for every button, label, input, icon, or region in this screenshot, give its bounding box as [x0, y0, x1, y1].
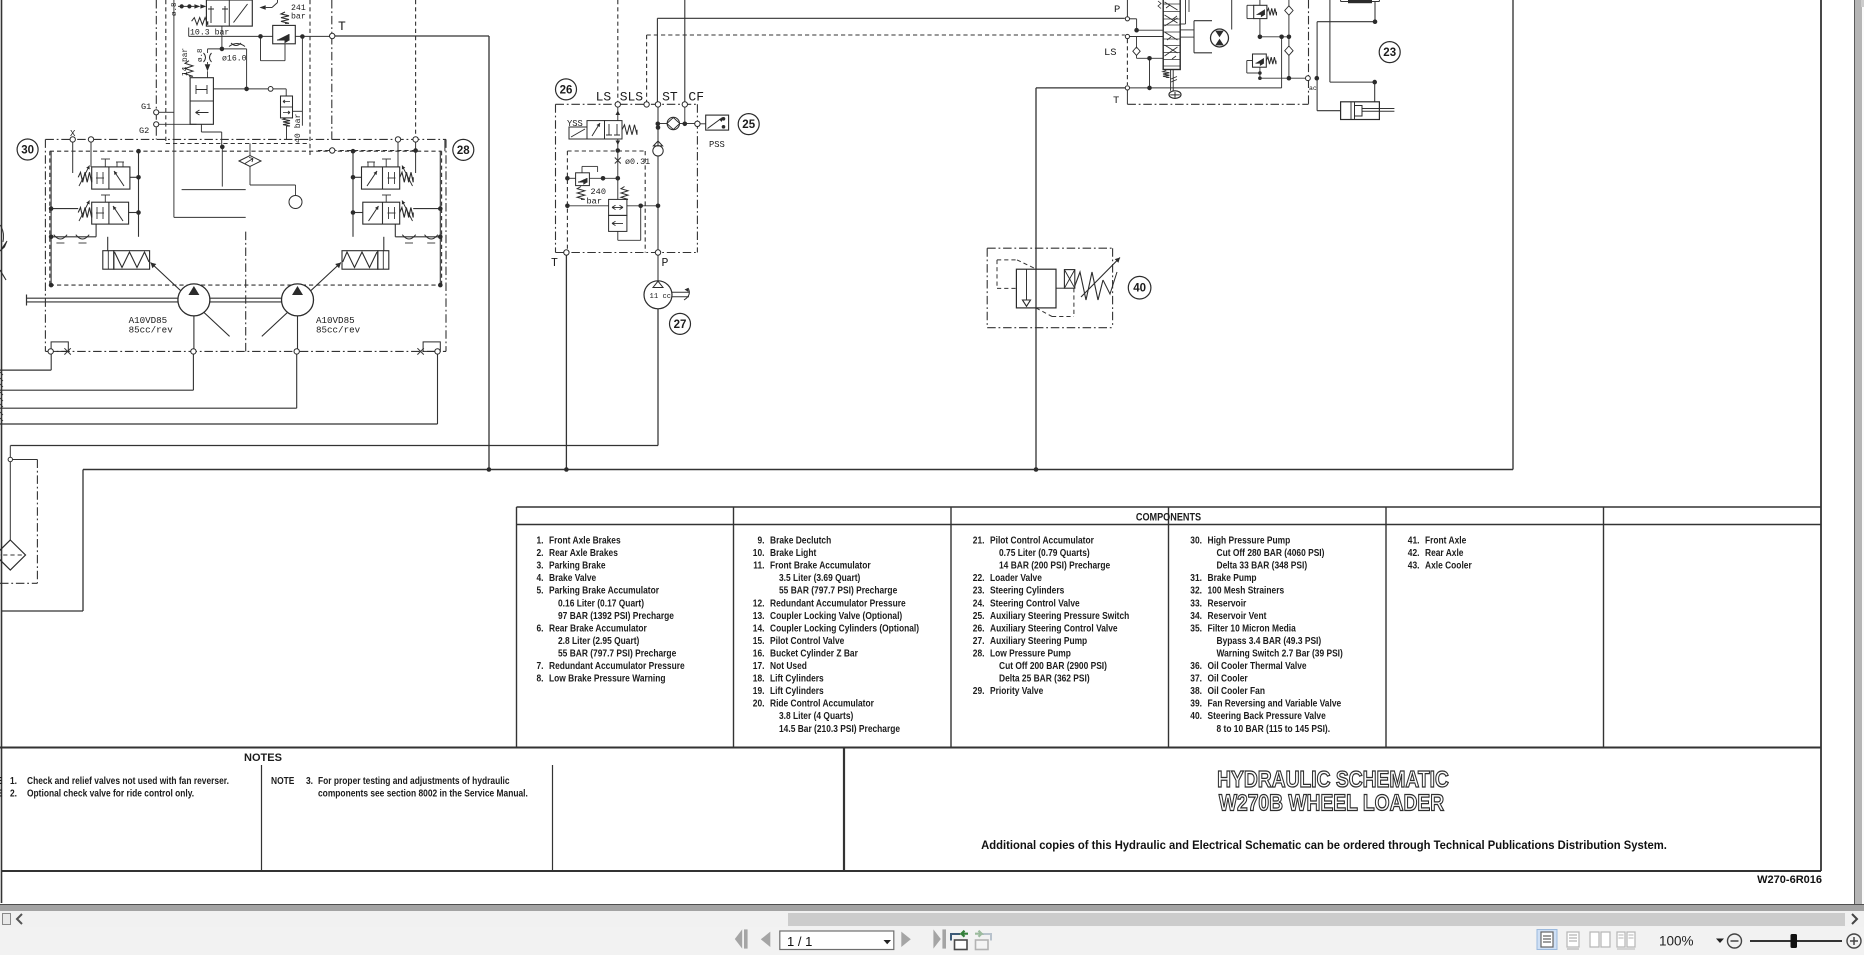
- svg-text:Steering Back Pressure Valve: Steering Back Pressure Valve: [1208, 710, 1326, 721]
- svg-text:X: X: [70, 129, 76, 139]
- svg-text:24.: 24.: [973, 598, 985, 609]
- svg-text:36.: 36.: [1190, 660, 1202, 671]
- svg-text:40 bar: 40 bar: [293, 113, 303, 143]
- svg-text:5.: 5.: [536, 585, 543, 596]
- svg-text:14 bar: 14 bar: [182, 48, 190, 76]
- svg-text:Coupler Locking Cylinders (Opt: Coupler Locking Cylinders (Optional): [770, 623, 919, 634]
- svg-text:8.: 8.: [536, 673, 543, 684]
- svg-text:Loader Valve: Loader Valve: [990, 572, 1042, 583]
- svg-text:Front Brake Accumulator: Front Brake Accumulator: [770, 560, 871, 571]
- svg-text:23.: 23.: [973, 585, 985, 596]
- svg-text:Lift Cylinders: Lift Cylinders: [770, 685, 824, 696]
- svg-text:100 Mesh Strainers: 100 Mesh Strainers: [1208, 585, 1285, 596]
- svg-text:Low Brake Pressure Warning: Low Brake Pressure Warning: [549, 673, 666, 684]
- svg-text:W270-6R016: W270-6R016: [1757, 874, 1822, 886]
- svg-text:97 BAR (1392 PSI) Precharge: 97 BAR (1392 PSI) Precharge: [558, 610, 674, 621]
- svg-text:T: T: [1113, 95, 1119, 107]
- svg-text:55 BAR (797.7 PSI) Precharge: 55 BAR (797.7 PSI) Precharge: [558, 648, 676, 659]
- svg-text:20.: 20.: [753, 698, 765, 709]
- svg-text:Oil Cooler: Oil Cooler: [1208, 673, 1249, 684]
- svg-text:28: 28: [457, 145, 470, 157]
- svg-text:ø16.0: ø16.0: [222, 55, 247, 64]
- svg-text:1.: 1.: [10, 775, 17, 786]
- svg-text:Cut Off 280 BAR (4060 PSI): Cut Off 280 BAR (4060 PSI): [1217, 547, 1325, 558]
- svg-text:T: T: [551, 257, 558, 270]
- svg-text:Rear Axle: Rear Axle: [1425, 547, 1463, 558]
- svg-text:Oil Cooler Fan: Oil Cooler Fan: [1208, 685, 1266, 696]
- svg-text:ø.8: ø.8: [171, 2, 179, 16]
- svg-text:Delta 33 BAR (348 PSI): Delta 33 BAR (348 PSI): [1217, 560, 1308, 571]
- svg-text:30.: 30.: [1190, 535, 1202, 546]
- svg-text:8 to 10 BAR (115 to 145 PSI).: 8 to 10 BAR (115 to 145 PSI).: [1217, 723, 1331, 734]
- svg-text:LS: LS: [1104, 47, 1117, 59]
- svg-text:G1: G1: [141, 102, 151, 112]
- svg-text:3.: 3.: [536, 560, 543, 571]
- svg-text:NOTE: NOTE: [271, 775, 294, 786]
- svg-text:Cut Off 200 BAR (2900 PSI): Cut Off 200 BAR (2900 PSI): [999, 660, 1107, 671]
- svg-text:0.16 Liter (0.17 Quart): 0.16 Liter (0.17 Quart): [558, 598, 644, 609]
- svg-text:Ride Control Accumulator: Ride Control Accumulator: [770, 698, 874, 709]
- svg-text:HYDRAULIC SCHEMATIC: HYDRAULIC SCHEMATIC: [1217, 766, 1449, 792]
- svg-text:9.: 9.: [757, 535, 764, 546]
- svg-text:ø.8: ø.8: [197, 48, 205, 62]
- svg-text:23: 23: [1383, 47, 1396, 59]
- svg-text:T: T: [338, 19, 346, 34]
- svg-text:Parking Brake: Parking Brake: [549, 560, 606, 571]
- svg-text:Auxiliary Steering Pump: Auxiliary Steering Pump: [990, 635, 1087, 646]
- svg-text:YSS: YSS: [567, 119, 583, 129]
- svg-text:COMPONENTS: COMPONENTS: [1136, 512, 1202, 524]
- svg-text:14 BAR (200 PSI) Precharge: 14 BAR (200 PSI) Precharge: [999, 560, 1110, 571]
- svg-text:Front Axle: Front Axle: [1425, 535, 1466, 546]
- svg-text:39.: 39.: [1190, 698, 1202, 709]
- svg-text:Check and relief valves not us: Check and relief valves not used with fa…: [27, 775, 229, 786]
- svg-text:2.: 2.: [10, 788, 17, 799]
- svg-text:Optional check valve for ride: Optional check valve for ride control on…: [27, 788, 194, 799]
- svg-text:G2: G2: [139, 126, 149, 136]
- svg-text:1.: 1.: [536, 535, 543, 546]
- svg-text:Front Axle Brakes: Front Axle Brakes: [549, 535, 621, 546]
- svg-text:Brake Pump: Brake Pump: [1208, 572, 1257, 583]
- svg-text:Filter 10 Micron Media: Filter 10 Micron Media: [1208, 623, 1297, 634]
- svg-text:Auxiliary Steering Control Val: Auxiliary Steering Control Valve: [990, 623, 1118, 634]
- svg-text:Reservoir: Reservoir: [1208, 598, 1247, 609]
- svg-text:Rear Axle Brakes: Rear Axle Brakes: [549, 547, 618, 558]
- svg-text:26.: 26.: [973, 623, 985, 634]
- svg-text:High Pressure Pump: High Pressure Pump: [1208, 535, 1291, 546]
- svg-text:33.: 33.: [1190, 598, 1202, 609]
- svg-text:3.8 Liter (4 Quarts): 3.8 Liter (4 Quarts): [779, 710, 853, 721]
- svg-text:40.: 40.: [1190, 710, 1202, 721]
- svg-text:85cc/rev: 85cc/rev: [129, 325, 174, 336]
- svg-text:2.8 Liter (2.95 Quart): 2.8 Liter (2.95 Quart): [558, 635, 639, 646]
- svg-text:SLS: SLS: [620, 90, 644, 105]
- svg-text:ST: ST: [662, 90, 678, 105]
- svg-text:Lift Cylinders: Lift Cylinders: [770, 673, 824, 684]
- svg-text:Low Pressure Pump: Low Pressure Pump: [990, 648, 1071, 659]
- svg-text:2.: 2.: [536, 547, 543, 558]
- svg-text:28.: 28.: [973, 648, 985, 659]
- svg-text:18.: 18.: [753, 673, 765, 684]
- svg-text:55 BAR (797.7 PSI) Precharge: 55 BAR (797.7 PSI) Precharge: [779, 585, 897, 596]
- svg-text:LS: LS: [596, 90, 612, 105]
- svg-text:25: 25: [742, 119, 755, 131]
- svg-text:240: 240: [591, 187, 606, 197]
- svg-text:0.75 Liter (0.79 Quarts): 0.75 Liter (0.79 Quarts): [999, 547, 1090, 558]
- svg-text:17.: 17.: [753, 660, 765, 671]
- svg-text:1 / 1: 1 / 1: [787, 934, 812, 949]
- svg-text:43.: 43.: [1408, 560, 1420, 571]
- svg-text:Not Used: Not Used: [770, 660, 807, 671]
- svg-text:Steering Control Valve: Steering Control Valve: [990, 598, 1080, 609]
- svg-text:Priority Valve: Priority Valve: [990, 685, 1043, 696]
- svg-text:6.: 6.: [536, 623, 543, 634]
- svg-text:Brake Light: Brake Light: [770, 547, 816, 558]
- svg-text:85cc/rev: 85cc/rev: [316, 325, 361, 336]
- svg-text:21.: 21.: [973, 535, 985, 546]
- svg-text:12.: 12.: [753, 598, 765, 609]
- svg-text:bar: bar: [291, 12, 306, 22]
- svg-text:41.: 41.: [1408, 535, 1420, 546]
- svg-text:Parking Brake Accumulator: Parking Brake Accumulator: [549, 585, 659, 596]
- svg-text:10.: 10.: [753, 547, 765, 558]
- svg-text:19.: 19.: [753, 685, 765, 696]
- svg-text:NOTE: NOTE: [0, 775, 2, 786]
- svg-text:27: 27: [674, 319, 687, 331]
- svg-text:11 cc: 11 cc: [650, 293, 672, 301]
- svg-text:14.: 14.: [753, 623, 765, 634]
- svg-text:Brake Declutch: Brake Declutch: [770, 535, 831, 546]
- svg-text:CF: CF: [688, 90, 704, 105]
- svg-text:Oil Cooler Thermal Valve: Oil Cooler Thermal Valve: [1208, 660, 1307, 671]
- svg-text:34.: 34.: [1190, 610, 1202, 621]
- svg-text:Pilot Control Accumulator: Pilot Control Accumulator: [990, 535, 1094, 546]
- svg-text:Warning Switch 2.7 Bar (39 PSI: Warning Switch 2.7 Bar (39 PSI): [1217, 648, 1343, 659]
- svg-text:P: P: [662, 257, 669, 270]
- svg-text:29.: 29.: [973, 685, 985, 696]
- svg-text:30: 30: [21, 145, 34, 157]
- svg-text:bar: bar: [587, 197, 602, 207]
- svg-text:35.: 35.: [1190, 623, 1202, 634]
- svg-text:ac: ac: [1309, 85, 1317, 92]
- svg-text:PSS: PSS: [709, 140, 725, 150]
- svg-text:Auxiliary Steering Pressure Sw: Auxiliary Steering Pressure Switch: [990, 610, 1130, 621]
- svg-text:13.: 13.: [753, 610, 765, 621]
- svg-text:27.: 27.: [973, 635, 985, 646]
- svg-text:Reservoir Vent: Reservoir Vent: [1208, 610, 1267, 621]
- svg-text:Bypass 3.4 BAR (49.3 PSI): Bypass 3.4 BAR (49.3 PSI): [1217, 635, 1322, 646]
- svg-text:15.: 15.: [753, 635, 765, 646]
- svg-text:22.: 22.: [973, 572, 985, 583]
- svg-text:Delta 25 BAR (362 PSI): Delta 25 BAR (362 PSI): [999, 673, 1090, 684]
- svg-text:Rear Brake Accumulator: Rear Brake Accumulator: [549, 623, 647, 634]
- svg-text:components see section 8002 in: components see section 8002 in the Servi…: [318, 788, 528, 799]
- svg-text:Steering Cylinders: Steering Cylinders: [990, 585, 1064, 596]
- svg-text:38.: 38.: [1190, 685, 1202, 696]
- svg-text:16.: 16.: [753, 648, 765, 659]
- svg-text:37.: 37.: [1190, 673, 1202, 684]
- svg-text:10.3 bar: 10.3 bar: [190, 28, 229, 38]
- svg-text:Pilot Control Valve: Pilot Control Valve: [770, 635, 844, 646]
- svg-text:P: P: [1114, 4, 1120, 16]
- svg-text:Brake Valve: Brake Valve: [549, 572, 596, 583]
- svg-text:7.: 7.: [536, 660, 543, 671]
- svg-text:W270B WHEEL LOADER: W270B WHEEL LOADER: [1219, 790, 1445, 816]
- svg-text:Bucket Cylinder Z Bar: Bucket Cylinder Z Bar: [770, 648, 858, 659]
- svg-text:3.5 Liter (3.69 Quart): 3.5 Liter (3.69 Quart): [779, 572, 860, 583]
- svg-text:Fan Reversing and Variable Val: Fan Reversing and Variable Valve: [1208, 698, 1342, 709]
- svg-text:Additional copies of this Hydr: Additional copies of this Hydraulic and …: [981, 840, 1667, 852]
- svg-text:Coupler Locking Valve (Optiona: Coupler Locking Valve (Optional): [770, 610, 902, 621]
- svg-text:26: 26: [560, 84, 573, 96]
- svg-text:14.5 Bar (210.3 PSI) Precharge: 14.5 Bar (210.3 PSI) Precharge: [779, 723, 900, 734]
- svg-text:100%: 100%: [1659, 934, 1694, 949]
- svg-text:For proper testing and adjustm: For proper testing and adjustments of hy…: [318, 775, 510, 786]
- svg-text:Redundant Accumulator Pressure: Redundant Accumulator Pressure: [770, 598, 906, 609]
- svg-text:NOTES: NOTES: [244, 752, 282, 764]
- svg-text:Axle Cooler: Axle Cooler: [1425, 560, 1472, 571]
- svg-text:42.: 42.: [1408, 547, 1420, 558]
- svg-text:25.: 25.: [973, 610, 985, 621]
- svg-text:31.: 31.: [1190, 572, 1202, 583]
- svg-text:4.: 4.: [536, 572, 543, 583]
- svg-text:40: 40: [1133, 283, 1146, 295]
- svg-text:ø0.31: ø0.31: [625, 157, 650, 167]
- svg-text:3.: 3.: [306, 775, 313, 786]
- svg-text:32.: 32.: [1190, 585, 1202, 596]
- svg-text:NOTE: NOTE: [0, 788, 2, 799]
- svg-text:11.: 11.: [753, 560, 764, 571]
- svg-text:Redundant Accumulator Pressure: Redundant Accumulator Pressure: [549, 660, 685, 671]
